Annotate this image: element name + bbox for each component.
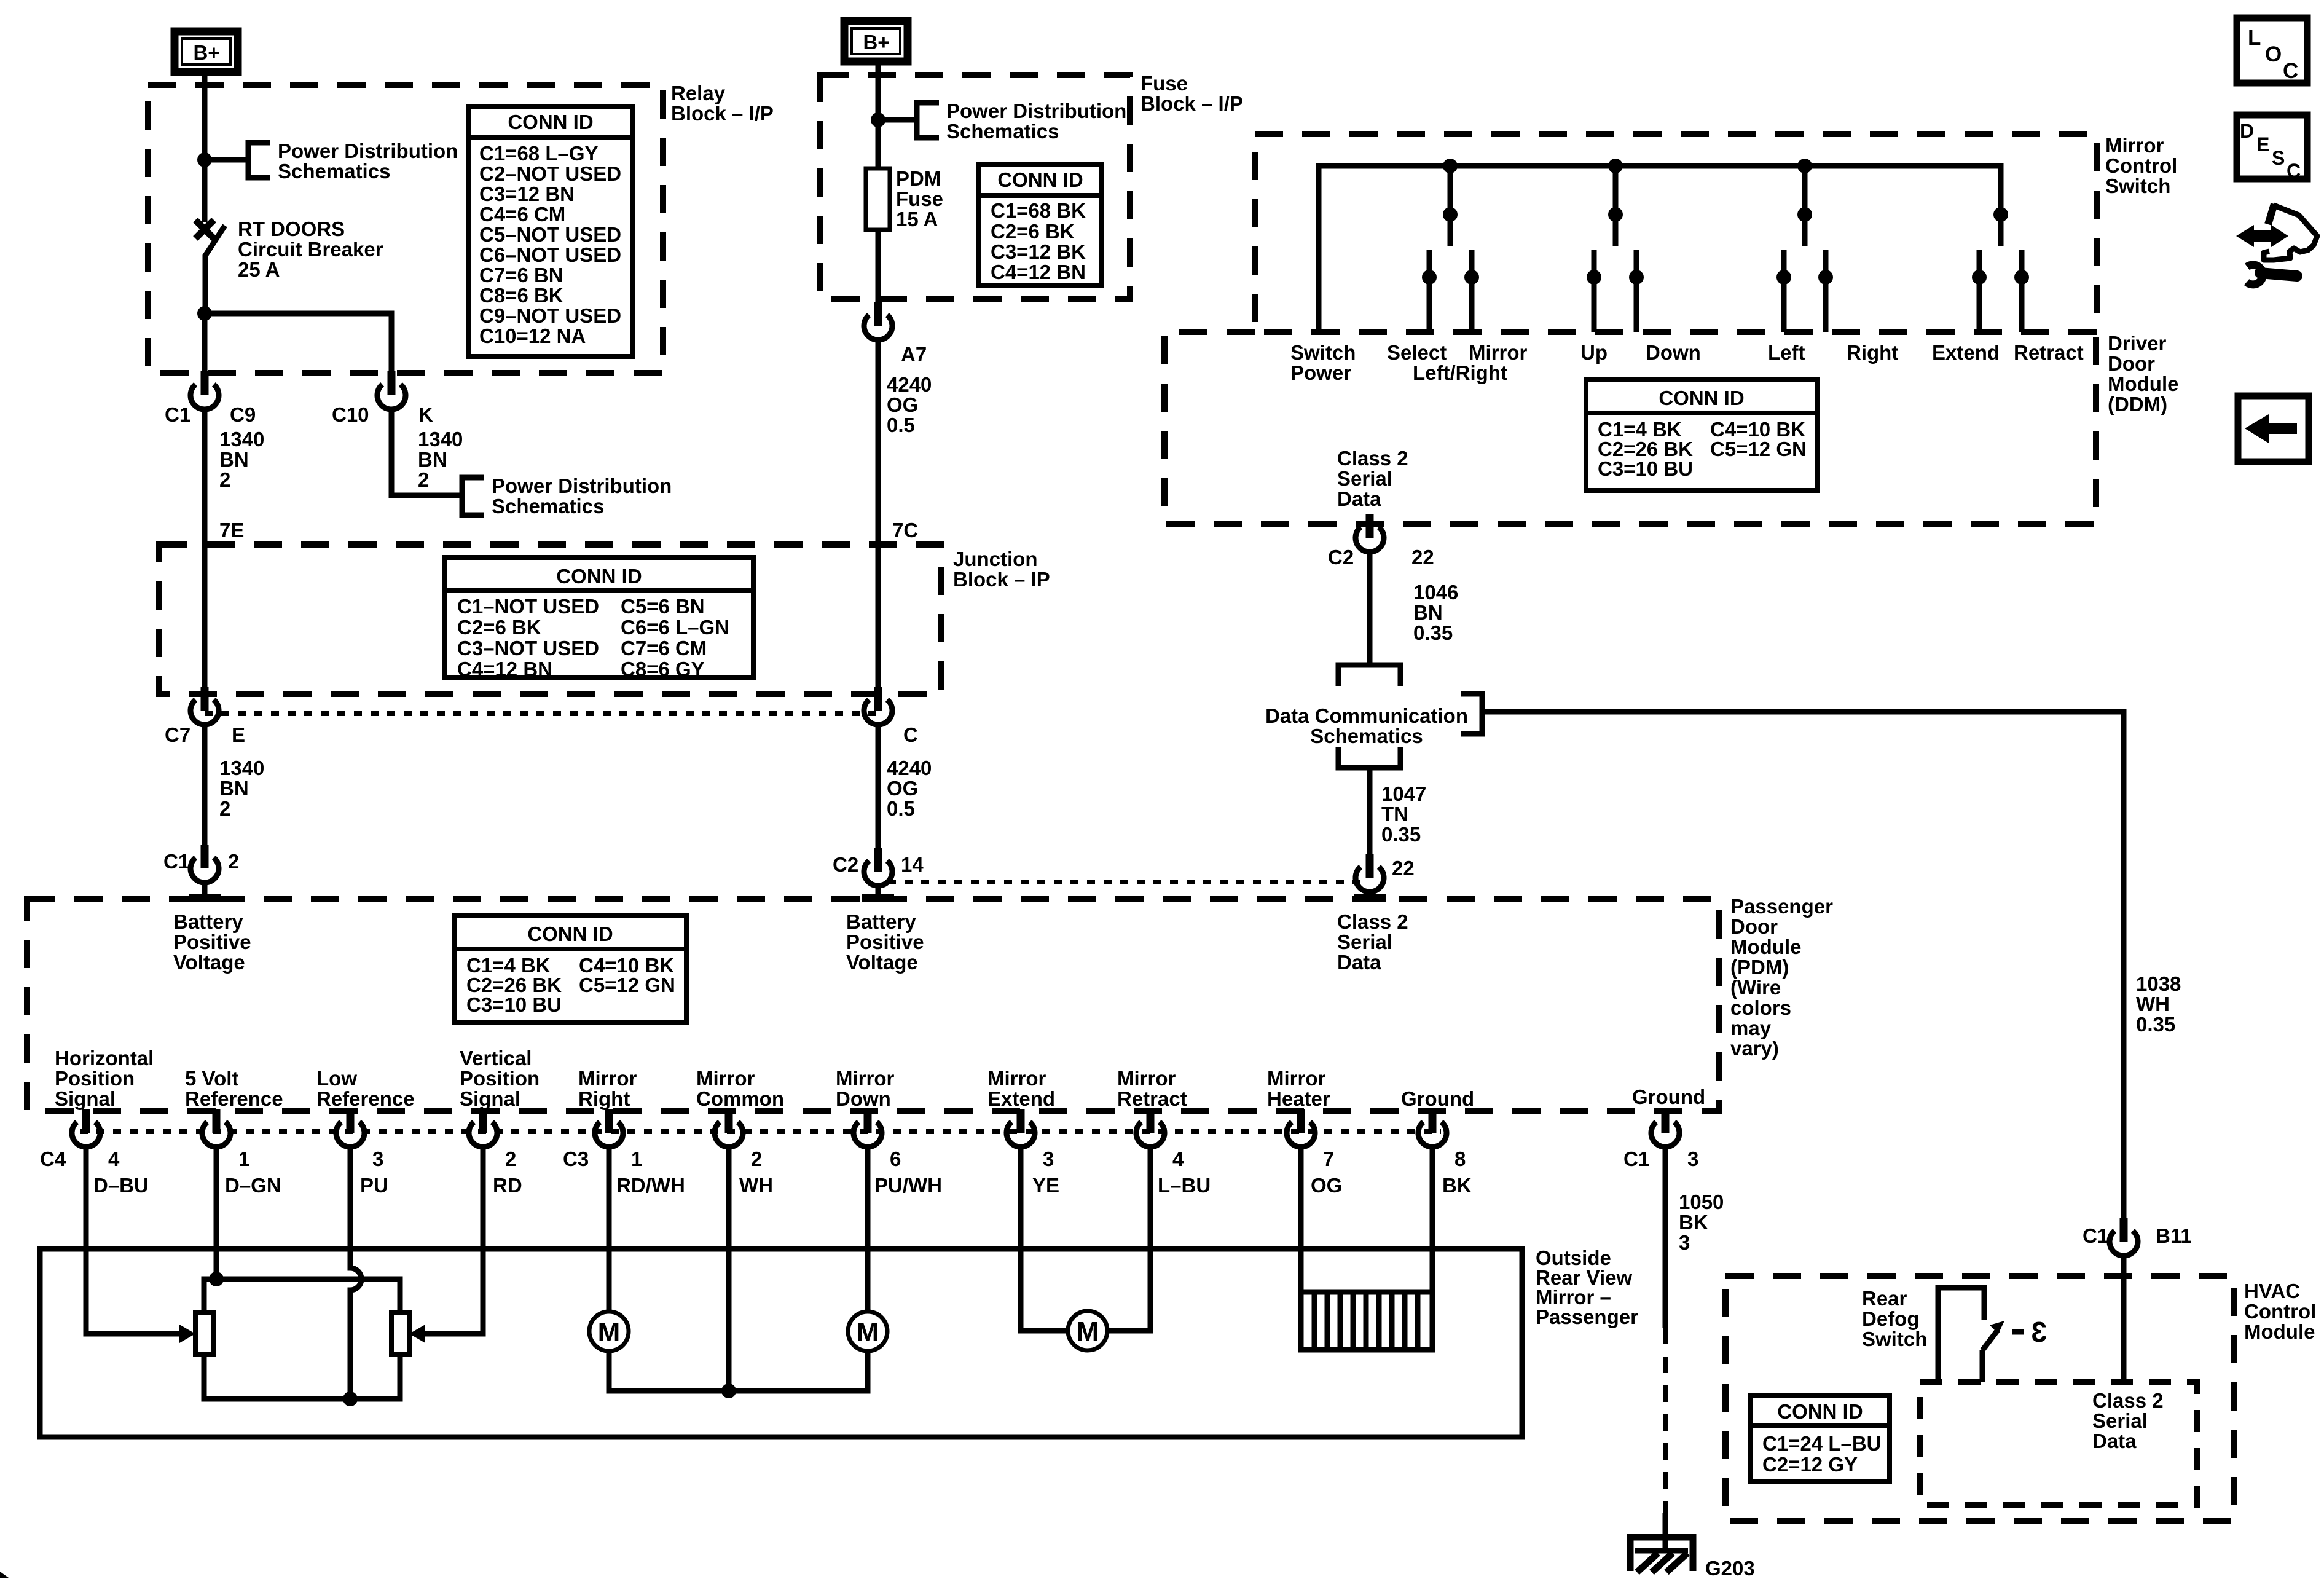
fuse PDM Fuse 15 A <box>866 168 890 230</box>
svg-text:RD/WH: RD/WH <box>616 1174 685 1197</box>
connector C (junction block) <box>864 687 892 725</box>
svg-text:M: M <box>857 1317 879 1347</box>
svg-text:4240: 4240 <box>887 373 932 396</box>
svg-text:Data Communication: Data Communication <box>1265 704 1468 727</box>
reference bracket power distribution (C10) <box>462 478 484 515</box>
svg-text:C8=6 BK: C8=6 BK <box>479 284 563 307</box>
connector C4 pin 4 <box>72 1109 100 1147</box>
svg-text:YE: YE <box>1032 1174 1059 1197</box>
svg-text:C: C <box>2283 59 2298 83</box>
connector pin 1 (5V ref) <box>202 1109 230 1147</box>
svg-text:BK: BK <box>1679 1211 1708 1234</box>
svg-text:BN: BN <box>1413 601 1443 624</box>
dotted connector row line <box>80 1129 1441 1134</box>
wire A7 to junction block <box>876 340 881 699</box>
svg-text:Signal: Signal <box>55 1087 116 1110</box>
svg-text:C7=6 CM: C7=6 CM <box>621 637 707 660</box>
svg-text:0.35: 0.35 <box>1413 621 1453 644</box>
svg-text:(Wire: (Wire <box>1730 976 1781 999</box>
svg-text:C4: C4 <box>40 1148 66 1170</box>
wire OG to heater <box>1298 1147 1304 1350</box>
switch contact mirror <box>1469 250 1475 332</box>
wire ground to G203 <box>1663 1147 1668 1328</box>
svg-text:Serial: Serial <box>1337 931 1392 953</box>
svg-text:7E: 7E <box>219 519 244 541</box>
wire branch to C10 <box>205 313 391 384</box>
svg-text:CONN ID: CONN ID <box>997 168 1083 191</box>
arrow wiper horizontal pot <box>179 1325 195 1343</box>
svg-text:(PDM): (PDM) <box>1730 956 1789 979</box>
svg-text:Power Distribution: Power Distribution <box>946 100 1126 122</box>
svg-text:Voltage: Voltage <box>173 951 245 974</box>
svg-text:C5=12 GN: C5=12 GN <box>1710 438 1807 460</box>
svg-text:Right: Right <box>1847 341 1898 364</box>
switch contact left <box>1781 250 1787 332</box>
svg-text:2: 2 <box>751 1148 762 1170</box>
svg-text:Schematics: Schematics <box>492 495 604 518</box>
wire B11 into HVAC <box>2121 1256 2127 1384</box>
mirror control switch dashed box <box>1255 134 2097 332</box>
svg-text:Mirror: Mirror <box>696 1067 755 1090</box>
svg-text:Down: Down <box>1646 341 1701 364</box>
svg-text:Block – IP: Block – IP <box>953 568 1050 591</box>
svg-text:C7: C7 <box>165 723 190 746</box>
svg-text:Mirror: Mirror <box>1267 1067 1326 1090</box>
svg-text:Voltage: Voltage <box>846 951 918 974</box>
svg-text:C1=68 BK: C1=68 BK <box>991 199 1086 222</box>
svg-text:Retract: Retract <box>2014 341 2084 364</box>
svg-text:Passenger: Passenger <box>1536 1305 1638 1328</box>
svg-text:1: 1 <box>631 1148 642 1170</box>
switch pole up/down <box>1613 166 1619 246</box>
svg-text:Switch: Switch <box>1862 1328 1927 1350</box>
connector C7 / E <box>190 687 219 725</box>
svg-text:Extend: Extend <box>1932 341 2000 364</box>
svg-text:L: L <box>2248 26 2261 50</box>
svg-text:C3=10 BU: C3=10 BU <box>466 993 562 1016</box>
svg-text:CONN ID: CONN ID <box>1659 387 1744 409</box>
svg-text:6: 6 <box>890 1148 901 1170</box>
wire switch power feed bus <box>1319 166 2001 332</box>
switch contact select left/right <box>1427 250 1432 332</box>
connector pin 4 (mirror retract) <box>1136 1109 1164 1147</box>
svg-text:C1: C1 <box>2083 1224 2108 1247</box>
svg-text:Power Distribution: Power Distribution <box>492 474 672 497</box>
svg-text:4240: 4240 <box>887 757 932 779</box>
switch contact extend <box>1977 250 1982 332</box>
connector C1 pin 3 (ground) <box>1651 1109 1679 1147</box>
wire to bracket <box>205 157 248 163</box>
svg-text:Data: Data <box>2092 1430 2137 1452</box>
svg-text:TN: TN <box>1381 803 1408 825</box>
svg-text:3: 3 <box>1687 1148 1698 1170</box>
svg-text:2: 2 <box>505 1148 516 1170</box>
svg-text:Power: Power <box>1290 361 1351 384</box>
svg-text:C10: C10 <box>332 403 369 426</box>
wire PU low reference with hop over bus <box>350 1147 361 1399</box>
CONN ID table (relay block) <box>468 106 633 356</box>
svg-text:1: 1 <box>238 1148 249 1170</box>
svg-text:Ground: Ground <box>1401 1087 1474 1110</box>
svg-text:C8=6 GY: C8=6 GY <box>621 658 705 680</box>
connector C1 / 2 <box>190 845 219 883</box>
switch pole select (left/right) <box>1448 166 1453 246</box>
svg-text:Retract: Retract <box>1117 1087 1187 1110</box>
svg-text:Class 2: Class 2 <box>2092 1389 2164 1412</box>
wire RD/WH to motor right <box>607 1147 612 1312</box>
svg-text:CONN ID: CONN ID <box>1777 1400 1863 1423</box>
svg-text:3: 3 <box>1679 1231 1690 1254</box>
svg-text:15 A: 15 A <box>896 208 938 230</box>
svg-text:B11: B11 <box>2156 1224 2192 1247</box>
rear defog switch <box>1938 1288 2047 1382</box>
svg-text:C9: C9 <box>230 403 256 426</box>
arrow wiper vertical pot <box>409 1325 425 1343</box>
svg-text:CONN ID: CONN ID <box>556 565 642 588</box>
switch contact right <box>1823 250 1829 332</box>
svg-text:Schematics: Schematics <box>278 160 390 183</box>
svg-text:RD: RD <box>493 1174 522 1197</box>
dotted junction bus C7 to C <box>205 711 878 716</box>
svg-text:Low: Low <box>316 1067 357 1090</box>
reference bracket power distribution (relay) <box>248 143 270 178</box>
svg-text:Schematics: Schematics <box>1310 725 1423 747</box>
wire data communication to 22 (PDM) <box>1367 770 1373 865</box>
switch contact down <box>1634 250 1639 332</box>
wire to bracket (fuse) <box>878 117 917 123</box>
svg-text:1046: 1046 <box>1413 581 1458 604</box>
CONN ID table (junction block) <box>445 557 753 680</box>
svg-text:Class 2: Class 2 <box>1337 910 1408 933</box>
svg-text:RT DOORS: RT DOORS <box>238 218 345 240</box>
wire stub into PDM (22) <box>1367 892 1373 899</box>
svg-text:G203: G203 <box>1705 1557 1755 1579</box>
svg-text:colors: colors <box>1730 996 1791 1019</box>
connector pin 7 (mirror heater) <box>1287 1109 1315 1147</box>
reference bracket power distribution (fuse block) <box>917 103 939 138</box>
svg-text:Control: Control <box>2105 154 2177 177</box>
svg-text:2: 2 <box>228 850 239 873</box>
motor M extend/retract <box>1068 1311 1107 1350</box>
svg-text:0.5: 0.5 <box>887 414 915 436</box>
svg-text:S: S <box>2272 147 2285 169</box>
svg-text:C: C <box>903 723 918 746</box>
svg-text:C3=12 BK: C3=12 BK <box>991 240 1086 263</box>
wire L-BU to motor retract <box>1107 1147 1150 1331</box>
svg-text:C6–NOT USED: C6–NOT USED <box>479 243 621 266</box>
reference bracket data communication (bottom) <box>1338 747 1400 768</box>
svg-text:C6=6 L–GN: C6=6 L–GN <box>621 616 729 639</box>
connector C1 / C9 <box>190 371 219 409</box>
svg-text:BN: BN <box>219 777 249 800</box>
svg-text:Mirror: Mirror <box>1469 341 1528 364</box>
connector pin 2 (mirror common) <box>715 1109 743 1147</box>
wire C10 to power distribution bracket <box>391 409 462 495</box>
svg-text:C1: C1 <box>1623 1148 1649 1170</box>
wire D-BU to horizontal pot wiper <box>86 1147 181 1334</box>
svg-text:M: M <box>1077 1317 1099 1347</box>
svg-text:3: 3 <box>1043 1148 1054 1170</box>
node junction to power distribution bracket <box>197 152 212 167</box>
connector C10 / K <box>377 371 406 409</box>
wire C7 to C1 (PDM) <box>202 725 208 859</box>
svg-text:A7: A7 <box>901 343 927 366</box>
svg-text:Serial: Serial <box>2092 1409 2148 1432</box>
svg-text:OG: OG <box>887 393 918 416</box>
svg-text:Down: Down <box>836 1087 891 1110</box>
switch pole left/right <box>1802 166 1808 246</box>
svg-text:Block – I/P: Block – I/P <box>671 102 774 125</box>
svg-text:Block – I/P: Block – I/P <box>1140 92 1243 115</box>
wire breaker to C1 connector <box>202 313 208 384</box>
svg-text:C2: C2 <box>1328 546 1354 569</box>
corner mark <box>0 1572 9 1578</box>
HVAC control module dashed box <box>1725 1276 2234 1521</box>
svg-text:Right: Right <box>578 1087 630 1110</box>
relay block I/P dashed box <box>148 85 663 373</box>
svg-text:PU: PU <box>360 1174 388 1197</box>
svg-text:M: M <box>598 1317 621 1347</box>
svg-text:Serial: Serial <box>1337 467 1392 490</box>
wire C2-22 to data communication <box>1367 552 1373 663</box>
svg-text:22: 22 <box>1411 546 1434 569</box>
svg-text:Junction: Junction <box>953 548 1038 570</box>
svg-text:may: may <box>1730 1017 1772 1039</box>
wire BK to heater <box>1430 1147 1435 1350</box>
CONN ID table (PDM) <box>455 916 686 1022</box>
svg-text:BK: BK <box>1442 1174 1472 1197</box>
svg-text:Up: Up <box>1580 341 1608 364</box>
circuit breaker RT DOORS 25 A <box>195 220 225 313</box>
svg-text:Mirror: Mirror <box>987 1067 1046 1090</box>
svg-text:Passenger: Passenger <box>1730 895 1833 918</box>
svg-text:Mirror: Mirror <box>578 1067 637 1090</box>
svg-text:OG: OG <box>887 777 918 800</box>
svg-text:4: 4 <box>108 1148 120 1170</box>
passenger door module dashed box <box>27 899 1719 1111</box>
svg-text:C9–NOT USED: C9–NOT USED <box>479 304 621 327</box>
connector C3 pin 1 (mirror right) <box>595 1109 623 1147</box>
svg-text:Positive: Positive <box>846 931 924 953</box>
svg-text:0.5: 0.5 <box>887 797 915 820</box>
svg-text:C3: C3 <box>563 1148 589 1170</box>
svg-text:CONN ID: CONN ID <box>527 923 613 945</box>
motor M up/down <box>848 1312 887 1351</box>
icon mirror adjust with wrench <box>2236 204 2317 285</box>
svg-text:8: 8 <box>1454 1148 1466 1170</box>
svg-text:Module: Module <box>2108 372 2178 395</box>
connector pin 8 (ground) <box>1418 1109 1447 1147</box>
svg-text:Position: Position <box>460 1067 540 1090</box>
wire B+ to breaker <box>202 72 208 222</box>
svg-text:CONN ID: CONN ID <box>508 111 593 133</box>
svg-text:C4=6 CM: C4=6 CM <box>479 203 565 226</box>
potentiometer vertical <box>391 1313 409 1354</box>
svg-text:Schematics: Schematics <box>946 120 1059 143</box>
svg-text:C1=68 L–GY: C1=68 L–GY <box>479 142 599 165</box>
svg-text:Signal: Signal <box>460 1087 520 1110</box>
svg-text:Left/Right: Left/Right <box>1413 361 1507 384</box>
svg-text:C7=6 BN: C7=6 BN <box>479 264 563 286</box>
junction block IP dashed box <box>159 545 941 694</box>
svg-text:1050: 1050 <box>1679 1191 1724 1213</box>
svg-text:WH: WH <box>739 1174 773 1197</box>
svg-text:D–BU: D–BU <box>93 1174 149 1197</box>
svg-text:C2=12 GY: C2=12 GY <box>1762 1453 1858 1476</box>
svg-text:25 A: 25 A <box>238 258 280 281</box>
connector pin 6 (mirror down) <box>854 1109 882 1147</box>
svg-text:Defog: Defog <box>1862 1307 1920 1330</box>
svg-text:HVAC: HVAC <box>2244 1280 2300 1302</box>
svg-text:Data: Data <box>1337 487 1381 510</box>
svg-text:Fuse: Fuse <box>1140 72 1188 95</box>
svg-text:Ground: Ground <box>1632 1085 1705 1108</box>
svg-text:Module: Module <box>2244 1320 2315 1343</box>
node breaker output <box>197 306 212 321</box>
svg-text:1340: 1340 <box>219 428 264 451</box>
svg-text:C5=12 GN: C5=12 GN <box>579 974 675 996</box>
svg-text:Reference: Reference <box>316 1087 415 1110</box>
svg-text:E: E <box>2256 133 2269 156</box>
svg-text:(DDM): (DDM) <box>2108 393 2167 415</box>
svg-text:Power Distribution: Power Distribution <box>278 140 458 162</box>
svg-text:C5=6 BN: C5=6 BN <box>621 595 705 618</box>
svg-text:C: C <box>2287 160 2301 182</box>
svg-text:C2=6 BK: C2=6 BK <box>457 616 541 639</box>
svg-text:PU/WH: PU/WH <box>874 1174 942 1197</box>
svg-text:C3=10 BU: C3=10 BU <box>1598 457 1693 480</box>
wire stub into PDM (C2) <box>876 886 881 899</box>
svg-text:B+: B+ <box>193 41 219 64</box>
svg-text:Positive: Positive <box>173 931 251 953</box>
svg-text:1047: 1047 <box>1381 782 1426 805</box>
svg-text:Data: Data <box>1337 951 1381 974</box>
svg-text:Driver: Driver <box>2108 332 2167 355</box>
wire fuse to A7 <box>876 230 881 315</box>
wire D-GN 5V reference <box>214 1147 219 1279</box>
svg-text:Mirror: Mirror <box>2105 134 2164 157</box>
power symbol B+ (fuse feed) <box>844 21 908 61</box>
svg-text:L–BU: L–BU <box>1158 1174 1211 1197</box>
svg-text:C10=12 NA: C10=12 NA <box>479 325 586 347</box>
wire pot bottom bus <box>204 1354 400 1399</box>
svg-text:C1: C1 <box>163 850 189 873</box>
svg-text:Rear: Rear <box>1862 1287 1907 1310</box>
svg-text:C4=12 BN: C4=12 BN <box>991 261 1086 283</box>
svg-text:1038: 1038 <box>2136 972 2181 995</box>
svg-text:C1=24 L–BU: C1=24 L–BU <box>1762 1432 1882 1455</box>
svg-text:Mirror: Mirror <box>1117 1067 1176 1090</box>
svg-text:Module: Module <box>1730 935 1801 958</box>
svg-text:Battery: Battery <box>846 910 916 933</box>
svg-text:Position: Position <box>55 1067 135 1090</box>
svg-text:C2=6 BK: C2=6 BK <box>991 220 1075 243</box>
wire data communication to HVAC <box>1482 712 2124 1232</box>
svg-text:1340: 1340 <box>418 428 463 451</box>
svg-text:2: 2 <box>219 468 230 491</box>
svg-text:C3–NOT USED: C3–NOT USED <box>457 637 599 660</box>
wire C to C2 (PDM) <box>876 725 881 862</box>
svg-text:C1–NOT USED: C1–NOT USED <box>457 595 599 618</box>
svg-text:Circuit Breaker: Circuit Breaker <box>238 238 383 261</box>
svg-text:Fuse: Fuse <box>896 187 943 210</box>
svg-text:vary): vary) <box>1730 1037 1779 1060</box>
class 2 serial data dashed box (HVAC) <box>1920 1382 2197 1505</box>
svg-text:Switch: Switch <box>1290 341 1356 364</box>
svg-text:Vertical: Vertical <box>460 1047 532 1069</box>
svg-text:1340: 1340 <box>219 757 264 779</box>
svg-text:OG: OG <box>1311 1174 1342 1197</box>
svg-text:Select: Select <box>1387 341 1447 364</box>
svg-text:C5–NOT USED: C5–NOT USED <box>479 223 621 246</box>
wire pot top bus <box>204 1279 400 1313</box>
connector pin 3 (low ref) <box>336 1109 364 1147</box>
svg-text:D–GN: D–GN <box>225 1174 281 1197</box>
svg-text:C4=12 BN: C4=12 BN <box>457 658 552 680</box>
svg-text:2: 2 <box>219 797 230 820</box>
svg-text:Battery: Battery <box>173 910 243 933</box>
svg-text:0.35: 0.35 <box>2136 1013 2175 1036</box>
svg-text:Door: Door <box>2108 352 2155 375</box>
svg-text:Relay: Relay <box>671 82 726 104</box>
svg-text:3: 3 <box>372 1148 383 1170</box>
connector C2 / 14 <box>864 848 892 886</box>
svg-text:5 Volt: 5 Volt <box>185 1067 238 1090</box>
CONN ID table (HVAC) <box>1751 1396 1890 1482</box>
svg-text:PDM: PDM <box>896 167 941 190</box>
power symbol B+ (relay feed) <box>175 31 238 72</box>
reference bracket data communication (right) <box>1461 694 1482 734</box>
svg-text:Extend: Extend <box>987 1087 1055 1110</box>
svg-text:22: 22 <box>1392 857 1415 880</box>
wire RD to vertical pot wiper <box>424 1147 483 1334</box>
CONN ID table (fuse block) <box>979 164 1102 285</box>
svg-text:Heater: Heater <box>1267 1087 1330 1110</box>
node junction to power distribution bracket (fuse) <box>871 112 885 127</box>
wire motor bottom bus <box>609 1351 868 1391</box>
switch contact up <box>1592 250 1597 332</box>
svg-text:B+: B+ <box>863 31 889 53</box>
svg-text:2: 2 <box>418 468 429 491</box>
CONN ID table (DDM) <box>1586 380 1818 490</box>
svg-text:3: 3 <box>2031 1316 2047 1348</box>
svg-text:Class 2: Class 2 <box>1337 447 1408 470</box>
icon back arrow box <box>2238 396 2309 462</box>
svg-text:Control: Control <box>2244 1300 2316 1323</box>
wire B+ to fuse <box>876 61 881 168</box>
svg-text:Left: Left <box>1768 341 1805 364</box>
reference bracket data communication (top) <box>1338 665 1400 686</box>
fuse block I/P dashed box <box>820 75 1130 299</box>
ground G203 <box>1627 1534 1696 1572</box>
motor M left/right <box>589 1312 629 1351</box>
svg-text:Common: Common <box>696 1087 784 1110</box>
outside rear view mirror box <box>40 1249 1522 1437</box>
svg-text:7: 7 <box>1323 1148 1334 1170</box>
switch contact retract <box>2019 250 2025 332</box>
dotted class 2 serial data bus C2 to 22 <box>888 880 1360 884</box>
svg-text:Door: Door <box>1730 915 1778 938</box>
svg-text:Mirror: Mirror <box>836 1067 895 1090</box>
svg-text:K: K <box>418 403 433 426</box>
wire PU/WH to motor down <box>865 1147 871 1312</box>
svg-text:4: 4 <box>1172 1148 1184 1170</box>
connector pin 3 (mirror extend) <box>1007 1109 1035 1147</box>
svg-text:7C: 7C <box>892 519 918 541</box>
potentiometer horizontal <box>195 1313 213 1354</box>
svg-text:BN: BN <box>418 448 447 471</box>
connector pin 2 (vert pos) <box>469 1109 497 1147</box>
